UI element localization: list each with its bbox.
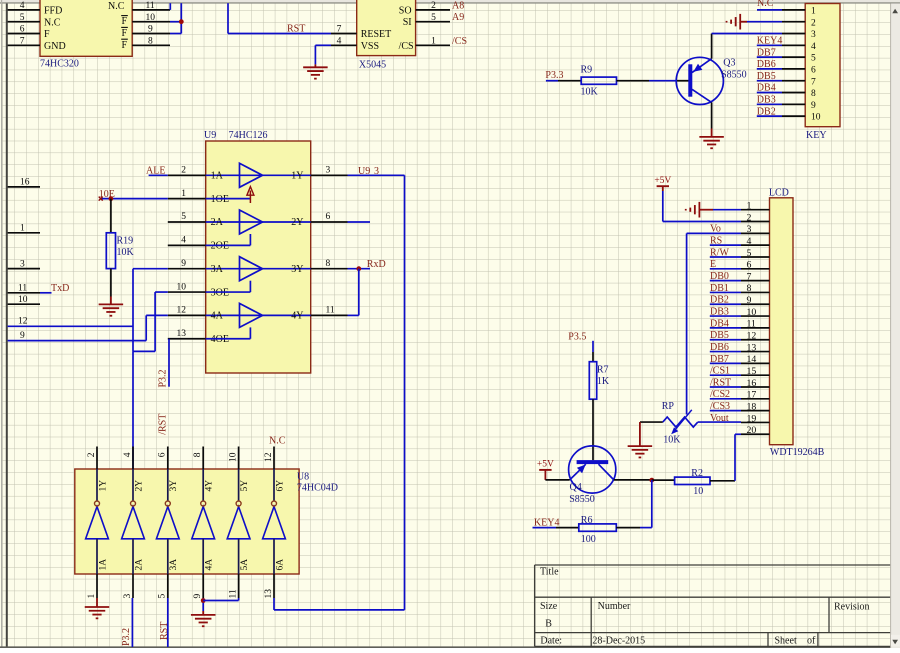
U8 top pin 8 — [202, 447, 204, 470]
svg-text:5: 5 — [158, 594, 168, 599]
svg-text:9: 9 — [811, 101, 816, 111]
LCD pin 7 — [741, 280, 770, 282]
svg-text:3: 3 — [123, 594, 133, 599]
svg-text:P3.3: P3.3 — [545, 70, 563, 81]
svg-text:A8: A8 — [452, 0, 464, 11]
U9 output pin 6 — [311, 221, 348, 223]
svg-text:4Y: 4Y — [205, 480, 215, 492]
wire Vout row through RP — [698, 421, 741, 423]
right scrollbar — [891, 4, 900, 649]
svg-text:10K: 10K — [581, 87, 599, 98]
window bottom edge — [0, 646, 900, 648]
U9 buffer 1 — [206, 174, 311, 176]
left pin 1 — [8, 232, 40, 234]
wire U8 pin9 down to ground — [202, 598, 204, 611]
wire Vo vertical — [687, 232, 741, 234]
U8 inverter 3 — [167, 469, 169, 501]
svg-text:Revision: Revision — [834, 602, 870, 613]
svg-text:3Y: 3Y — [169, 480, 179, 492]
svg-text:3: 3 — [20, 259, 25, 269]
svg-text:R9: R9 — [581, 65, 593, 76]
svg-text:4A: 4A — [205, 559, 215, 571]
svg-text:10K: 10K — [117, 247, 135, 258]
svg-text:1Y: 1Y — [98, 480, 108, 492]
svg-text:16: 16 — [747, 378, 757, 389]
svg-text:10: 10 — [146, 13, 156, 23]
svg-text:7: 7 — [337, 25, 342, 35]
svg-text:RST: RST — [287, 24, 305, 35]
svg-text:12: 12 — [177, 306, 187, 316]
wire pin10 to vertical — [170, 21, 181, 23]
R19 top wire — [110, 199, 112, 233]
window top border band — [0, 0, 900, 2]
wire ground to KEY pin2 — [747, 21, 782, 23]
sheet left border — [1, 0, 3, 648]
ground below X5045 — [314, 64, 316, 67]
svg-text:11: 11 — [747, 319, 757, 330]
svg-text:4: 4 — [123, 452, 133, 457]
enable elbow — [249, 327, 251, 338]
svg-text:of: of — [807, 636, 816, 647]
svg-text:P3.5: P3.5 — [568, 331, 586, 342]
svg-text:Title: Title — [540, 567, 559, 578]
svg-text:12: 12 — [747, 331, 757, 342]
U8 bottom pin 3 — [132, 574, 134, 598]
left pin 10 — [8, 303, 40, 305]
svg-text:4: 4 — [181, 236, 186, 246]
svg-text:2Y: 2Y — [291, 217, 303, 228]
svg-text:17: 17 — [747, 390, 757, 401]
svg-text:5: 5 — [747, 248, 752, 259]
svg-text:100: 100 — [581, 534, 596, 545]
svg-text:16: 16 — [20, 178, 30, 188]
svg-text:5: 5 — [431, 13, 436, 23]
svg-text:+5V: +5V — [654, 176, 671, 186]
U9 output pin 3 — [311, 174, 348, 176]
svg-text:KEY: KEY — [806, 130, 827, 141]
wire bottom horizontal to U8 pin13 — [274, 609, 405, 611]
svg-text:SO: SO — [399, 5, 412, 16]
svg-text:10K: 10K — [663, 435, 681, 446]
svg-text:8: 8 — [747, 283, 752, 294]
LCD pin 17 — [741, 398, 770, 400]
sideways ground at LCD pin1 — [698, 202, 700, 218]
wire R9 to Q3 base — [617, 80, 650, 82]
svg-text:LCD: LCD — [769, 188, 789, 199]
Q4 emitter pin — [545, 479, 569, 481]
svg-text:RxD: RxD — [367, 259, 386, 270]
wire pin13 down (P3.2) — [168, 339, 170, 387]
resistor R7 — [589, 362, 596, 400]
KEY pin 2 — [782, 21, 805, 23]
transistor Q4 S8550 — [569, 446, 616, 493]
junction dot 10E/R19 — [109, 196, 114, 201]
U8 bottom pin 13 — [273, 574, 275, 598]
svg-text:Number: Number — [598, 601, 631, 612]
svg-text:13: 13 — [264, 589, 274, 599]
svg-text:12: 12 — [18, 317, 28, 327]
svg-text:R19: R19 — [117, 236, 134, 247]
svg-text:Q3: Q3 — [723, 58, 735, 69]
svg-text:3Y: 3Y — [291, 264, 303, 275]
resistor R19 — [106, 233, 115, 269]
svg-text:1K: 1K — [597, 376, 610, 387]
svg-text:2: 2 — [747, 212, 752, 223]
wire VSS to ground — [315, 44, 331, 46]
LCD pin 8 — [741, 291, 770, 293]
wire 4Y to vertical — [348, 314, 359, 316]
wire U8 pin3 down (P3.2) — [131, 598, 133, 647]
IC U8 74HC04D body — [75, 469, 299, 574]
wire vertical x155 (3E net) — [154, 292, 156, 351]
U9 enable pin 1 — [168, 198, 206, 200]
svg-text:Sheet: Sheet — [775, 636, 797, 647]
U8 top pin 10 — [238, 447, 240, 470]
X5045 pin 5 SI — [416, 21, 450, 23]
svg-text:P3.2: P3.2 — [121, 628, 132, 646]
svg-text:5Y: 5Y — [240, 480, 250, 492]
svg-text:F: F — [122, 28, 128, 39]
svg-text:A9: A9 — [452, 12, 464, 23]
svg-text:FFD: FFD — [44, 6, 62, 17]
junction dot collector — [649, 478, 654, 483]
svg-text:R2: R2 — [691, 468, 703, 479]
wire TxD — [40, 292, 52, 294]
U9 buffer 4 — [206, 314, 311, 316]
U8 top pin 4 — [132, 447, 134, 470]
U8 top pin 12 — [273, 447, 275, 470]
LCD pin 13 — [741, 351, 770, 353]
svg-text:6: 6 — [20, 25, 25, 35]
svg-text:6A: 6A — [275, 559, 285, 571]
svg-text:Q4: Q4 — [570, 482, 582, 493]
wire 2Y stub — [348, 221, 371, 223]
+5V power at Q4 emitter — [539, 469, 551, 471]
svg-text:6Y: 6Y — [275, 480, 285, 492]
wire R2 to LCD pin20 — [710, 480, 735, 482]
svg-text:1A: 1A — [98, 559, 108, 571]
junction dot — [179, 19, 184, 24]
wire vertical x146 (4A net) — [145, 315, 147, 340]
LCD pin 9 — [741, 303, 770, 305]
resistor R9 — [581, 77, 616, 84]
wire P3.5 to R7 — [592, 341, 594, 352]
svg-text:/CS: /CS — [452, 36, 467, 47]
wire P3.3 to R9 — [546, 80, 558, 82]
svg-text:RP: RP — [662, 401, 675, 412]
svg-text:S8550: S8550 — [569, 494, 595, 505]
KEY pin 1 — [782, 9, 805, 11]
red x marker — [99, 197, 103, 201]
svg-text:WDT19264B: WDT19264B — [770, 447, 825, 458]
sideways ground at KEY pin2 — [739, 14, 741, 30]
LCD pin 16 — [741, 386, 770, 388]
svg-text:Size: Size — [540, 601, 558, 612]
U8 inverter 1 — [96, 469, 98, 501]
svg-text:74HC126: 74HC126 — [229, 130, 268, 141]
74HC320 pin 9 — [132, 33, 170, 35]
wire 1Y to long vertical — [348, 174, 405, 176]
U8 inverter 2 — [132, 469, 134, 501]
ground below U8 pin1 — [96, 598, 98, 607]
svg-text:12: 12 — [264, 452, 274, 462]
svg-text:3A: 3A — [169, 559, 179, 571]
svg-text:3: 3 — [747, 224, 752, 235]
svg-text:+5V: +5V — [537, 460, 554, 470]
svg-text:28-Dec-2015: 28-Dec-2015 — [592, 636, 645, 647]
svg-text:B: B — [545, 618, 552, 629]
svg-text:13: 13 — [177, 329, 187, 339]
svg-text:20: 20 — [747, 425, 757, 436]
wire 3Y RxD — [348, 268, 371, 270]
svg-text:4: 4 — [20, 1, 25, 11]
left pin 16 — [8, 186, 40, 188]
svg-text:2: 2 — [87, 452, 97, 457]
resistor R6 — [579, 524, 617, 531]
74HC320 pin 8 — [132, 44, 170, 46]
svg-text:U9: U9 — [358, 166, 370, 177]
R19 bottom wire — [110, 269, 112, 297]
svg-text:2: 2 — [181, 166, 186, 176]
svg-text:GND: GND — [44, 41, 66, 52]
left pin 12 wire — [8, 325, 133, 327]
LCD pin 11 — [741, 327, 770, 329]
connector KEY body — [805, 4, 840, 127]
U9 output pin 11 — [311, 314, 348, 316]
LCD pin 3 — [741, 232, 770, 234]
svg-text:R7: R7 — [597, 365, 609, 376]
U8 inverter 5 — [238, 469, 240, 501]
KEY pin 8 — [782, 92, 805, 94]
svg-text:10: 10 — [18, 295, 28, 305]
KEY pin 10 — [782, 115, 805, 117]
wire elbow to U8 pin4 — [132, 351, 134, 469]
ground below R19 — [99, 303, 124, 305]
U8 bottom pin 5 — [167, 574, 169, 598]
wire RST horizontal — [228, 33, 331, 35]
svg-text:3: 3 — [811, 30, 816, 40]
ground below U8 pin9 — [191, 614, 216, 616]
left pin 11 TxD — [8, 292, 40, 294]
X5045 pin 1 /CS — [416, 44, 450, 46]
KEY pin 9 — [782, 103, 805, 105]
left pin 3 — [8, 268, 40, 270]
U9 input pin 9 — [168, 268, 206, 270]
svg-text:6: 6 — [811, 66, 816, 76]
resistor R2 — [652, 479, 675, 481]
svg-text:10: 10 — [693, 486, 703, 497]
wire 4A row — [146, 314, 168, 316]
svg-text:9: 9 — [747, 295, 752, 306]
svg-text:5: 5 — [20, 13, 25, 23]
U9 buffer 2 — [206, 221, 311, 223]
junction dot RxD — [356, 266, 361, 271]
X5045 pin 7 RESET — [331, 33, 357, 35]
74HC320 pin 10 — [132, 21, 170, 23]
enable elbow — [249, 281, 251, 292]
svg-text:3: 3 — [326, 166, 331, 176]
KEY pin 4 — [782, 44, 805, 46]
U9 input pin 12 — [168, 314, 206, 316]
U9 enable pin 13 — [168, 338, 206, 340]
LCD pin 2 — [741, 221, 770, 223]
svg-text:3: 3 — [374, 166, 379, 177]
IC X5045 body — [357, 0, 416, 56]
IC 74HC320 body — [40, 0, 132, 56]
svg-text:5A: 5A — [240, 559, 250, 571]
svg-text:N.C: N.C — [757, 0, 774, 9]
svg-text:7: 7 — [747, 271, 752, 282]
svg-text:TxD: TxD — [51, 283, 69, 294]
svg-text:RST: RST — [159, 622, 170, 640]
svg-text:1: 1 — [87, 594, 97, 599]
svg-text:4A: 4A — [211, 311, 224, 322]
title block — [535, 564, 891, 566]
svg-text:4: 4 — [337, 37, 342, 47]
U9 buffer 3 — [206, 268, 311, 270]
svg-text:6: 6 — [326, 212, 331, 222]
svg-text:/RST: /RST — [158, 414, 169, 435]
transistor Q3 S8550 — [676, 57, 723, 104]
svg-text:S8550: S8550 — [721, 70, 747, 81]
svg-text:8: 8 — [193, 452, 203, 457]
svg-text:9: 9 — [148, 25, 153, 35]
svg-text:1: 1 — [431, 37, 436, 47]
KEY pin 3 — [782, 33, 805, 35]
svg-text:10: 10 — [811, 113, 821, 123]
LCD pin 12 — [741, 339, 770, 341]
svg-text:14: 14 — [747, 354, 757, 365]
svg-text:5: 5 — [181, 212, 186, 222]
enable elbow — [249, 234, 251, 245]
svg-text:1Y: 1Y — [291, 171, 303, 182]
svg-text:8: 8 — [811, 89, 816, 99]
svg-text:X5045: X5045 — [359, 60, 386, 71]
svg-text:2: 2 — [811, 18, 816, 28]
U8 top pin 6 — [167, 447, 169, 470]
svg-text:6: 6 — [747, 260, 752, 271]
svg-text:11: 11 — [228, 589, 238, 598]
ground below Q3 — [711, 129, 713, 137]
U8 top pin 2 — [96, 447, 98, 470]
U9 enable pin 4 — [168, 244, 206, 246]
wire vertical x181 — [180, 3, 182, 33]
svg-text:11: 11 — [326, 306, 335, 316]
svg-text:F: F — [122, 40, 128, 51]
svg-text:10: 10 — [747, 307, 757, 318]
svg-text:SI: SI — [403, 17, 412, 28]
svg-text:7: 7 — [811, 77, 816, 87]
LCD pin 4 — [741, 244, 770, 246]
wire 3A row — [133, 268, 168, 270]
wire vertical x228 (RST) — [227, 3, 229, 33]
KEY pin 5 — [782, 56, 805, 58]
svg-text:8: 8 — [148, 37, 153, 47]
wire pin11 up-stub — [169, 3, 171, 10]
X5045 pin 4 VSS — [331, 44, 357, 46]
U9 input pin 2 — [168, 174, 206, 176]
svg-text:11: 11 — [146, 1, 155, 11]
svg-text:2A: 2A — [134, 559, 144, 571]
left pin 9 wire — [8, 340, 147, 342]
wire vertical x133 (3A net) — [132, 269, 134, 352]
svg-text:F: F — [44, 29, 50, 40]
svg-text:2: 2 — [431, 1, 436, 11]
svg-text:P3.2: P3.2 — [158, 369, 169, 387]
svg-text:VSS: VSS — [361, 41, 379, 52]
X5045 pin 2 SO — [416, 9, 450, 11]
connector LCD body — [770, 198, 794, 445]
wire horizontal y351 — [133, 350, 155, 352]
svg-text:18: 18 — [747, 401, 757, 412]
red enable arrow buffer1 — [249, 191, 251, 204]
potentiometer RP — [640, 421, 663, 423]
svg-text:10: 10 — [228, 452, 238, 462]
LCD pin 18 — [741, 410, 770, 412]
U8 bottom pin 9 — [202, 574, 204, 598]
svg-text:1: 1 — [811, 7, 816, 17]
svg-text:F: F — [122, 16, 128, 27]
wire RxD down to 4Y — [358, 269, 360, 316]
LCD pin 20 — [741, 433, 770, 435]
svg-text:3A: 3A — [211, 264, 224, 275]
svg-text:RESET: RESET — [361, 29, 392, 40]
svg-text:R6: R6 — [581, 515, 593, 526]
wire junction down to R6 row — [651, 480, 653, 527]
svg-text:4: 4 — [747, 236, 752, 247]
svg-text:8: 8 — [326, 259, 331, 269]
Q3 collector wire down — [711, 102, 713, 128]
wire 3E row — [155, 291, 168, 293]
wire R6 to junction — [616, 527, 640, 529]
svg-text:7: 7 — [20, 37, 25, 47]
svg-text:15: 15 — [747, 366, 757, 377]
LCD pin 15 — [741, 374, 770, 376]
74HC320 pin 4 — [8, 9, 40, 11]
U9 enable pin 10 — [168, 291, 206, 293]
svg-text:9: 9 — [181, 259, 186, 269]
LCD pin 14 — [741, 362, 770, 364]
svg-text:N.C: N.C — [269, 436, 286, 447]
U8 bottom pin 1 — [96, 574, 98, 598]
svg-text:6: 6 — [158, 452, 168, 457]
svg-text:U8: U8 — [297, 472, 309, 483]
LCD pin 10 — [741, 315, 770, 317]
svg-text:2A: 2A — [211, 217, 224, 228]
svg-text:19: 19 — [747, 413, 757, 424]
wire +5V to LCD pin2 — [662, 186, 664, 191]
svg-text:1A: 1A — [211, 171, 224, 182]
svg-text:11: 11 — [18, 284, 27, 294]
U9 output pin 8 — [311, 268, 348, 270]
U8 bottom pin 11 — [238, 574, 240, 598]
svg-text:13: 13 — [747, 342, 757, 353]
long vertical wire — [404, 175, 406, 610]
svg-text:N.C: N.C — [108, 1, 125, 12]
svg-text:1: 1 — [747, 201, 752, 212]
svg-text:2Y: 2Y — [134, 480, 144, 492]
svg-text:10: 10 — [177, 282, 187, 292]
LCD pin 19 — [741, 421, 770, 423]
LCD pin 5 — [741, 256, 770, 258]
74HC320 pin 6 — [8, 33, 40, 35]
74HC320 pin 11 — [132, 9, 170, 11]
+5V power symbol at LCD — [657, 185, 669, 187]
wire Q3 to KEY pin3 — [712, 33, 782, 35]
svg-text:9: 9 — [193, 594, 203, 599]
LCD pin 6 — [741, 268, 770, 270]
svg-text:5: 5 — [811, 54, 816, 64]
